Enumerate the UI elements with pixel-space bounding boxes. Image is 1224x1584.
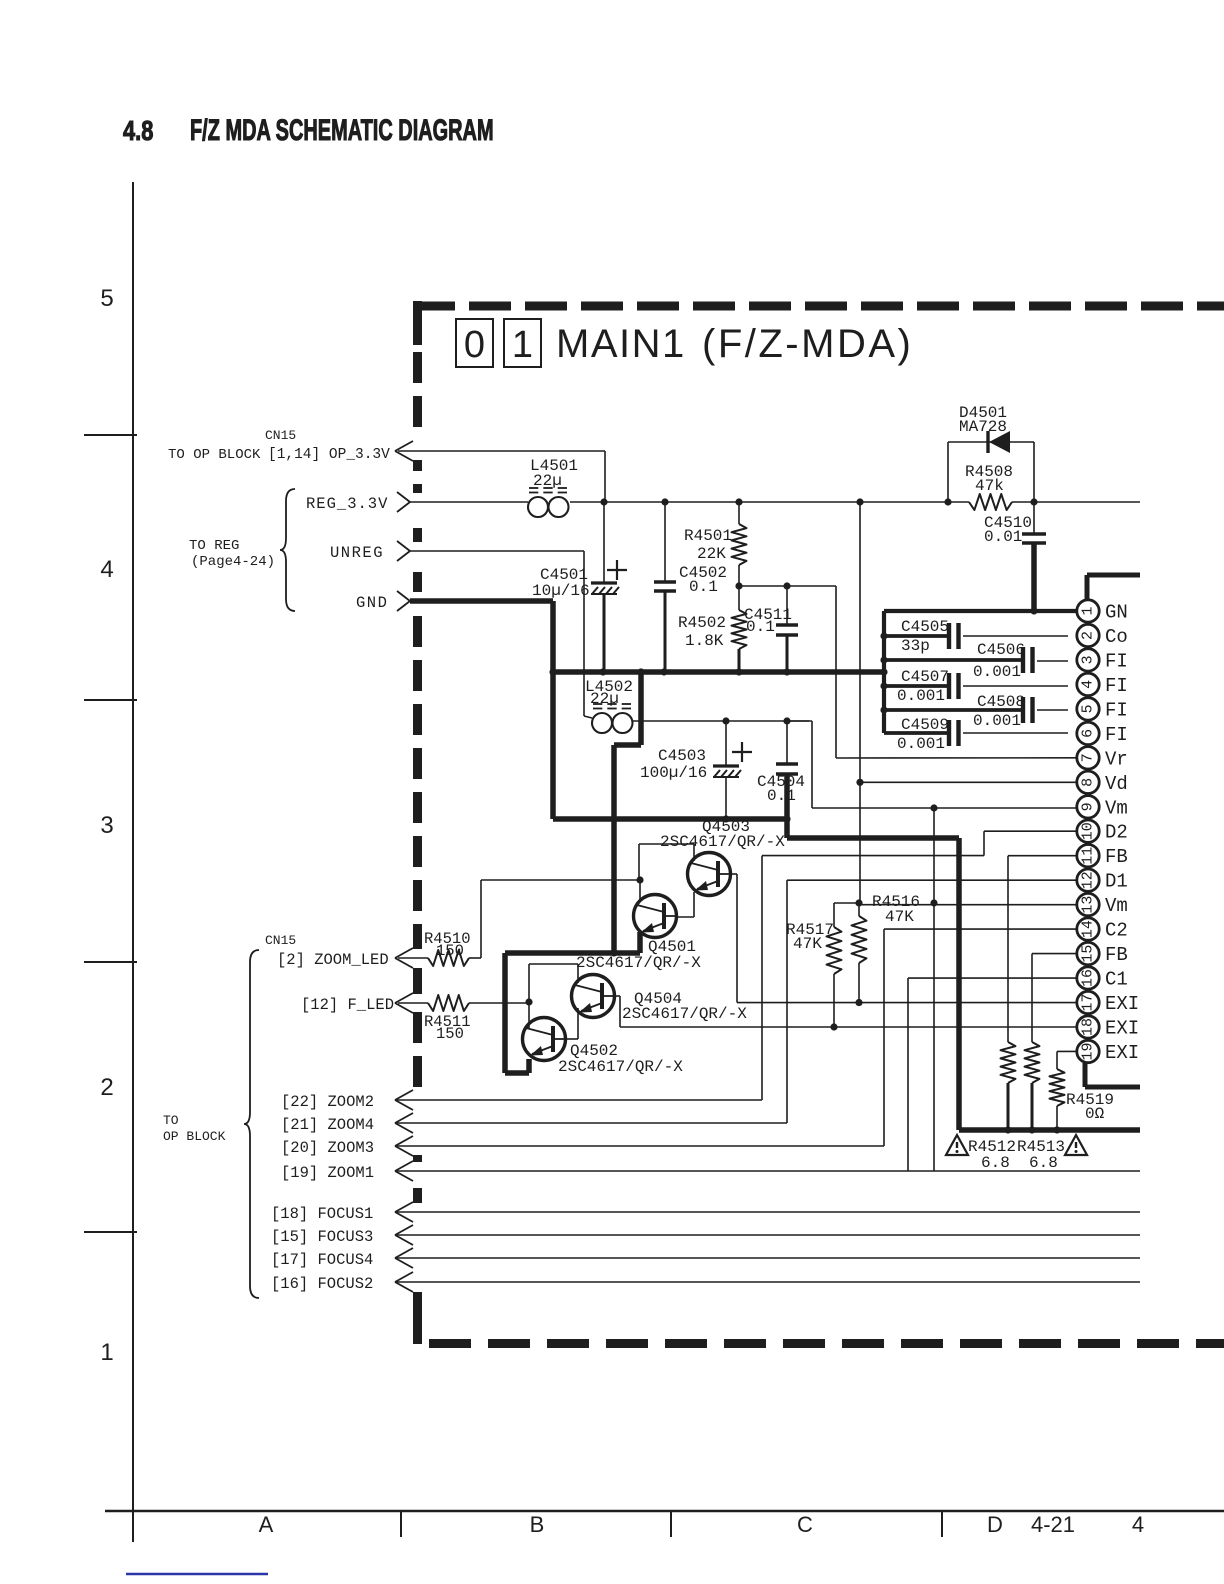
ruler tick 1/2 — [84, 1231, 137, 1233]
svg-text:FI: FI — [1105, 724, 1128, 746]
node F_LED arrow — [395, 993, 413, 1003]
IC pin 4 FI — [1077, 673, 1099, 695]
IC outline bottom — [1083, 1062, 1088, 1087]
wire pin10 D2 — [984, 830, 1078, 832]
wire ZOOM4 — [397, 1122, 787, 1124]
wire Q4503 emitter to Q4501 collector — [693, 892, 695, 917]
svg-text:33p: 33p — [901, 637, 930, 655]
wire pin10 staircase — [762, 855, 984, 857]
wire pin15 FB2 — [1032, 953, 1078, 955]
inductor L4501 — [528, 497, 548, 517]
junction Vm line — [930, 804, 937, 811]
svg-text:Co: Co — [1105, 626, 1128, 648]
wire pin13 Vm2 — [859, 904, 1078, 906]
brace TO OP BLOCK — [244, 950, 259, 1298]
capacitor C4504 — [786, 721, 788, 764]
svg-text:CN15: CN15 — [265, 933, 296, 948]
transistor Q4502 — [523, 1018, 566, 1061]
IC pin 18 EXI — [1077, 1016, 1099, 1038]
svg-text:47k: 47k — [975, 477, 1004, 495]
svg-text:C4507: C4507 — [901, 668, 949, 686]
svg-text:UNREG: UNREG — [330, 544, 384, 562]
svg-text:1: 1 — [1080, 606, 1097, 615]
svg-text:D2: D2 — [1105, 822, 1128, 844]
svg-text:MA728: MA728 — [959, 418, 1007, 436]
node FOCUS4 arrow — [395, 1248, 413, 1258]
node ZOOM4 arrow — [395, 1113, 413, 1123]
wire Q4501 emitter — [637, 932, 643, 953]
IC pin 2 Co — [1077, 624, 1099, 646]
svg-text:TO: TO — [163, 1113, 179, 1128]
svg-text:4: 4 — [100, 556, 113, 583]
svg-text:100µ/16: 100µ/16 — [640, 764, 707, 782]
wire pin1 GND wire — [884, 609, 1078, 613]
svg-text:[16] FOCUS2: [16] FOCUS2 — [271, 1275, 373, 1293]
svg-text:Vd: Vd — [1105, 773, 1128, 795]
wire Q4502 base — [528, 1002, 530, 1028]
svg-text:2: 2 — [100, 1074, 113, 1101]
IC pin 8 Vd — [1077, 771, 1099, 793]
svg-text:[17] FOCUS4: [17] FOCUS4 — [271, 1251, 373, 1269]
wire Vm riser — [933, 808, 935, 1171]
svg-text:1: 1 — [512, 324, 533, 366]
wire GND drop mid — [638, 672, 644, 745]
capacitor C4509 — [884, 731, 949, 735]
junction R4516 bottom — [855, 999, 862, 1006]
wire FOCUS2 — [397, 1281, 1140, 1283]
svg-text:0.001: 0.001 — [973, 663, 1021, 681]
wire GND bottom run — [550, 672, 556, 819]
capacitor C4510 — [1033, 502, 1035, 534]
IC pin 13 Vm — [1077, 893, 1099, 915]
junction GND/C4511 — [783, 668, 790, 675]
svg-text:[22] ZOOM2: [22] ZOOM2 — [281, 1093, 374, 1111]
junction bus R4512 — [1004, 1126, 1011, 1133]
wire pin17 EXP — [737, 1002, 1078, 1004]
svg-text:(F/Z-MDA): (F/Z-MDA) — [702, 322, 913, 366]
junction C4510/pin1 — [1030, 607, 1037, 614]
wire FOCUS3 — [397, 1234, 1140, 1236]
svg-text:[19] ZOOM1: [19] ZOOM1 — [281, 1164, 374, 1182]
junction REG/D4501 right — [1030, 498, 1037, 505]
junction Q4501 base — [636, 876, 643, 883]
junction GND/C4501 — [599, 668, 606, 675]
junction GND/C4504 bottom — [783, 815, 790, 822]
junction emitter GND — [610, 949, 617, 956]
wire R4517 top link — [834, 902, 859, 904]
svg-text:5: 5 — [100, 285, 113, 312]
svg-text:2SC4617/QR/-X: 2SC4617/QR/-X — [622, 1005, 747, 1023]
resistor R4513 — [1025, 1042, 1040, 1083]
svg-text:22K: 22K — [697, 545, 726, 563]
svg-text:EXI: EXI — [1105, 993, 1139, 1015]
dashed border top — [413, 302, 455, 311]
junction REG/D4501 left — [944, 498, 951, 505]
svg-text:2SC4617/QR/-X: 2SC4617/QR/-X — [660, 833, 785, 851]
svg-text:[21] ZOOM4: [21] ZOOM4 — [281, 1116, 374, 1134]
inductor L4502 — [592, 713, 612, 733]
dashed border bottom — [429, 1339, 471, 1348]
node REG_3.3V arrow — [397, 492, 410, 502]
svg-text:0.001: 0.001 — [897, 687, 945, 705]
svg-text:C4506: C4506 — [977, 641, 1025, 659]
junction C4511 top — [783, 582, 790, 589]
svg-text:REG_3.3V: REG_3.3V — [306, 495, 388, 513]
svg-text:C1: C1 — [1105, 969, 1128, 991]
svg-text:150: 150 — [436, 1025, 464, 1043]
resistor R4508 — [969, 494, 1012, 510]
svg-text:FI: FI — [1105, 675, 1128, 697]
svg-text:R4501: R4501 — [684, 527, 732, 545]
svg-text:0.1: 0.1 — [746, 618, 775, 636]
svg-text:16: 16 — [1080, 969, 1097, 987]
wire UNREG — [410, 550, 584, 552]
node FOCUS1 arrow — [395, 1202, 413, 1212]
junction R4516 top — [855, 899, 862, 906]
svg-text:150: 150 — [436, 942, 464, 960]
svg-text:Vr: Vr — [1105, 748, 1128, 770]
wire Q4504 emitter join — [577, 1008, 579, 1039]
svg-text:[15] FOCUS3: [15] FOCUS3 — [271, 1228, 373, 1246]
svg-text:6.8: 6.8 — [981, 1154, 1010, 1172]
svg-text:FB: FB — [1105, 944, 1128, 966]
svg-text:FI: FI — [1105, 650, 1128, 672]
wire Vd riser — [859, 502, 861, 903]
svg-text:FB: FB — [1105, 846, 1128, 868]
junction GND/C4503 bottom — [722, 815, 729, 822]
board id box 0 — [456, 319, 493, 367]
capacitor C4506 — [884, 658, 1023, 662]
footer tick A/B — [400, 1511, 402, 1537]
wire pin14 C2 — [884, 928, 1078, 930]
svg-text:10: 10 — [1080, 822, 1097, 840]
wire GND rail — [553, 669, 884, 675]
junction rail GND — [880, 668, 887, 675]
svg-text:12: 12 — [1080, 871, 1097, 889]
IC outline top — [1085, 575, 1090, 611]
svg-text:10µ/16: 10µ/16 — [532, 582, 590, 600]
svg-text:0.1: 0.1 — [689, 578, 718, 596]
junction R4517 bottom — [830, 1023, 837, 1030]
junction bus R4513 — [1028, 1126, 1035, 1133]
IC pin 5 FI — [1077, 698, 1099, 720]
svg-text:B: B — [530, 1512, 545, 1537]
wire divider to C4511 — [739, 585, 836, 587]
resistor R4517 — [827, 927, 842, 974]
node ZOOM1 arrow — [395, 1161, 413, 1171]
svg-text:3: 3 — [1080, 655, 1097, 664]
junction GND rail left — [549, 668, 556, 675]
junction C4503 top — [722, 717, 729, 724]
node FOCUS3 arrow — [395, 1225, 413, 1235]
svg-text:D: D — [987, 1512, 1003, 1537]
svg-text:8: 8 — [1080, 778, 1097, 787]
svg-text:19: 19 — [1080, 1042, 1097, 1060]
IC pin 1 GN — [1077, 600, 1099, 622]
wire pin11 FB — [1008, 855, 1078, 857]
svg-text:11: 11 — [1080, 847, 1097, 865]
wire cap bank rail — [882, 611, 886, 733]
resistor R4511 — [428, 995, 469, 1011]
transistor Q4503 — [688, 853, 731, 896]
wire Q4503 base feed — [638, 844, 640, 880]
board id box 1 — [504, 319, 541, 367]
svg-text:C4509: C4509 — [901, 716, 949, 734]
svg-text:OP BLOCK: OP BLOCK — [163, 1129, 226, 1144]
dashed border left — [413, 301, 422, 345]
brace TO REG — [280, 489, 295, 611]
node FOCUS2 arrow — [395, 1272, 413, 1282]
resistor R4510 — [428, 950, 469, 966]
IC pin 7 Vr — [1077, 747, 1099, 769]
wire ZOOM1 — [397, 1170, 1140, 1172]
wire pin12 D1 — [787, 879, 1078, 881]
IC pin 12 D1 — [1077, 869, 1099, 891]
svg-text:GND: GND — [356, 594, 388, 612]
footer tick B/C — [670, 1511, 672, 1537]
capacitor C4507 — [884, 684, 949, 688]
node UNREG arrow — [397, 541, 410, 551]
wire GND to bus — [784, 819, 790, 838]
svg-text:17: 17 — [1080, 993, 1097, 1011]
svg-text:Vm: Vm — [1105, 895, 1128, 917]
svg-text:0.001: 0.001 — [973, 712, 1021, 730]
svg-text:22µ: 22µ — [590, 690, 619, 708]
wire F_LED run — [469, 1002, 529, 1004]
node GND arrow — [397, 591, 410, 601]
svg-text:[1,14] OP_3.3V: [1,14] OP_3.3V — [268, 447, 390, 463]
svg-text:1.8K: 1.8K — [685, 632, 724, 650]
wire FOCUS4 — [397, 1257, 1140, 1259]
svg-text:EXI: EXI — [1105, 1017, 1139, 1039]
svg-text:4.8: 4.8 — [123, 115, 153, 146]
IC pin 14 C2 — [1077, 918, 1099, 940]
svg-text:TO OP BLOCK: TO OP BLOCK — [168, 447, 261, 463]
node ZOOM2 arrow — [395, 1090, 413, 1100]
junction rail C4507 — [880, 682, 887, 689]
wire pin7 Vr — [836, 757, 1078, 759]
capacitor C4501 — [603, 502, 605, 583]
svg-text:2: 2 — [1080, 631, 1097, 640]
junction Vm cross riser — [930, 899, 937, 906]
svg-text:15: 15 — [1080, 945, 1097, 963]
junction R4501/R4502 — [735, 582, 742, 589]
junction GND/C4502 — [660, 668, 667, 675]
svg-text:0Ω: 0Ω — [1085, 1105, 1105, 1123]
svg-text:3: 3 — [100, 812, 113, 839]
svg-text:[12] F_LED: [12] F_LED — [301, 996, 394, 1014]
svg-text:CN15: CN15 — [265, 428, 296, 443]
svg-text:0.001: 0.001 — [897, 735, 945, 753]
wire ZOOM2 — [397, 1099, 762, 1101]
capacitor C4503 — [725, 721, 727, 766]
IC pin 11 FB — [1077, 845, 1099, 867]
ruler tick 3/4 — [84, 699, 137, 701]
node OP_3.3V arrow — [395, 441, 413, 451]
svg-text:22µ: 22µ — [533, 472, 562, 490]
junction C4504 top — [783, 717, 790, 724]
junction REG/C4501 — [600, 498, 607, 505]
svg-text:C4503: C4503 — [658, 747, 706, 765]
wire FOCUS1 — [397, 1211, 1140, 1213]
svg-text:TO REG: TO REG — [189, 538, 239, 554]
IC pin 10 D2 — [1077, 820, 1099, 842]
svg-text:EXI: EXI — [1105, 1042, 1139, 1064]
junction bus R4519 — [1053, 1126, 1060, 1133]
svg-text:D1: D1 — [1105, 871, 1128, 893]
resistor R4516 — [852, 916, 867, 963]
svg-text:R4502: R4502 — [678, 614, 726, 632]
resistor R4502 — [732, 610, 747, 649]
footer tick C/D — [941, 1511, 943, 1537]
junction rail C4505 — [880, 632, 887, 639]
IC pin 9 Vm — [1077, 796, 1099, 818]
capacitor C4505 — [884, 634, 949, 638]
capacitor C4511 — [786, 586, 788, 625]
transistor Q4504 — [572, 975, 615, 1018]
svg-text:2SC4617/QR/-X: 2SC4617/QR/-X — [576, 954, 701, 972]
wire emitter GND run — [505, 950, 640, 956]
wire OP_3.3V — [398, 450, 605, 452]
page header title — [123, 115, 153, 146]
ruler vertical line — [132, 182, 134, 1542]
svg-text:MAIN1: MAIN1 — [556, 322, 686, 366]
resistor R4519 — [1050, 1069, 1065, 1106]
svg-text:5: 5 — [1080, 704, 1097, 713]
svg-text:C2: C2 — [1105, 920, 1128, 942]
wire pin16 C1 — [908, 977, 1078, 979]
svg-text:4: 4 — [1080, 680, 1097, 689]
wire pin8 Vd — [860, 781, 1078, 783]
wire Q4504 collector — [615, 995, 620, 997]
svg-text:4-21: 4-21 — [1031, 1512, 1075, 1537]
svg-text:[18] FOCUS1: [18] FOCUS1 — [271, 1205, 373, 1223]
IC pin 15 FB — [1077, 942, 1099, 964]
svg-text:C: C — [797, 1512, 813, 1537]
junction REG/R4501 — [735, 498, 742, 505]
svg-text:6.8: 6.8 — [1029, 1154, 1058, 1172]
junction GND/R4502 — [735, 668, 742, 675]
svg-text:[20] ZOOM3: [20] ZOOM3 — [281, 1139, 374, 1157]
wire REG_3.3V rail — [410, 501, 528, 503]
wire Q4503 collector — [731, 873, 737, 875]
IC pin 16 C1 — [1077, 967, 1099, 989]
svg-text:F/Z MDA SCHEMATIC DIAGRAM: F/Z MDA SCHEMATIC DIAGRAM — [190, 114, 494, 147]
wire L4502 out rail — [633, 720, 809, 722]
svg-text:A: A — [259, 1512, 274, 1537]
capacitor C4502 — [664, 502, 666, 582]
wire Q4501 base drop — [639, 880, 641, 901]
diode D4501 — [947, 442, 949, 502]
junction F_LED node — [525, 998, 532, 1005]
wire ZOOM3 — [397, 1145, 884, 1147]
svg-text:2SC4617/QR/-X: 2SC4617/QR/-X — [558, 1058, 683, 1076]
wire pin18 EXP2 — [620, 1026, 1078, 1028]
wire to Vm pin9 — [787, 720, 812, 722]
wire Q4502 box — [528, 964, 530, 1002]
IC pin 17 EXI — [1077, 991, 1099, 1013]
svg-text:C4505: C4505 — [901, 618, 949, 636]
svg-text:4: 4 — [1132, 1512, 1144, 1537]
ruler tick 4/5 — [84, 434, 137, 436]
svg-text:6: 6 — [1080, 729, 1097, 738]
svg-text:GN: GN — [1105, 602, 1128, 624]
resistor R4512 — [1001, 1042, 1016, 1083]
svg-text:(Page4-24): (Page4-24) — [191, 554, 275, 570]
junction rail C4506 — [880, 656, 887, 663]
transistor Q4501 — [634, 895, 677, 938]
svg-text:[2] ZOOM_LED: [2] ZOOM_LED — [277, 951, 389, 969]
wire Vr sense — [835, 586, 837, 758]
svg-text:47K: 47K — [793, 935, 822, 953]
svg-text:1: 1 — [100, 1339, 113, 1366]
svg-text:13: 13 — [1080, 896, 1097, 914]
resistor R4501 — [732, 524, 747, 565]
svg-text:C4508: C4508 — [977, 693, 1025, 711]
svg-text:FI: FI — [1105, 699, 1128, 721]
svg-text:Vm: Vm — [1105, 797, 1128, 819]
capacitor C4508 — [884, 708, 1023, 712]
svg-text:0.1: 0.1 — [767, 787, 796, 805]
junction GND/L4502 — [637, 668, 644, 675]
node ZOOM3 arrow — [395, 1136, 413, 1146]
ruler tick 2/3 — [84, 961, 137, 963]
svg-text:14: 14 — [1080, 920, 1097, 938]
wire pin19 EXP3 — [1057, 1050, 1078, 1052]
footer blue underline — [126, 1573, 268, 1575]
node ZOOM_LED arrow — [395, 948, 413, 958]
svg-text:0.01: 0.01 — [984, 528, 1022, 546]
IC pin 6 FI — [1077, 722, 1099, 744]
IC pin 19 EXI — [1077, 1040, 1099, 1062]
svg-text:0: 0 — [464, 324, 485, 366]
footer baseline — [105, 1510, 1224, 1512]
junction rail C4508 — [880, 706, 887, 713]
svg-text:7: 7 — [1080, 753, 1097, 762]
svg-text:18: 18 — [1080, 1018, 1097, 1036]
svg-text:47K: 47K — [885, 908, 914, 926]
wire GND feed — [410, 598, 553, 604]
IC pin 3 FI — [1077, 649, 1099, 671]
junction REG/C4502 — [661, 498, 668, 505]
wire ZOOM_LED to bases — [469, 957, 481, 959]
svg-text:9: 9 — [1080, 802, 1097, 811]
